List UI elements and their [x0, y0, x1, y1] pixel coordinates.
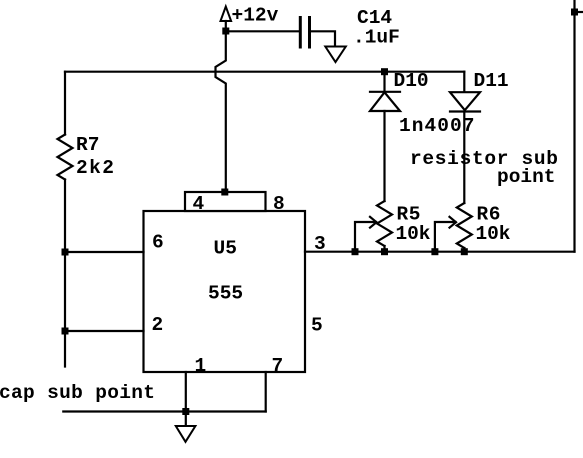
wire +12v node to C14: [226, 30, 299, 32]
wire pin 7 down: [265, 372, 267, 412]
potentiometer R5: [355, 201, 392, 252]
wire horizontal top rail: [65, 71, 464, 73]
wire vertical from +12v node down to IC (with jog over horizontal wire): [216, 31, 226, 192]
wire pin 6: [65, 251, 144, 253]
wire right vertical rail: [573, 0, 575, 252]
junction dot pin2/left rail: [62, 328, 69, 335]
svg-text:+12v: +12v: [232, 5, 279, 27]
svg-text:R7: R7: [76, 134, 99, 156]
wire ground stub: [185, 412, 187, 427]
svg-text:6: 6: [152, 232, 164, 254]
ground (C14): [325, 47, 346, 63]
wire C14 right plate to ground: [311, 31, 335, 46]
svg-text:8: 8: [273, 193, 285, 215]
power +12v symbol: [221, 7, 232, 32]
junction dot D10 top: [381, 68, 388, 75]
ground (pin1): [176, 426, 196, 442]
svg-text:D11: D11: [474, 70, 509, 92]
svg-text:1: 1: [195, 355, 207, 377]
svg-text:4: 4: [193, 193, 205, 215]
svg-text:2: 2: [152, 314, 164, 336]
wire left vertical lower (cap sub stub): [64, 180, 66, 367]
wire left vertical (R7 branch) upper: [64, 72, 66, 135]
svg-text:5: 5: [311, 315, 323, 337]
junction dot right rail: [571, 9, 578, 16]
svg-text:10k: 10k: [476, 223, 511, 245]
capacitor C14: [300, 18, 309, 48]
junction dot at +12v node: [222, 28, 229, 35]
diode D11: [450, 72, 480, 203]
junction dot R5 wiper: [352, 248, 359, 255]
resistor R7: [58, 135, 73, 180]
svg-text:U5: U5: [214, 238, 237, 260]
svg-text:cap sub point: cap sub point: [0, 382, 155, 404]
wire pin 3 output rail: [305, 251, 575, 253]
svg-text:2k2: 2k2: [76, 157, 114, 179]
junction dot R6 bottom: [461, 248, 468, 255]
wire bottom rail: [63, 410, 265, 412]
svg-text:.1uF: .1uF: [353, 27, 400, 49]
diode D10: [370, 72, 400, 201]
wire pin 1 down: [185, 372, 187, 412]
wire right rail exit: [575, 11, 583, 13]
svg-text:point: point: [497, 166, 556, 188]
op IC U5 555 main box: [144, 211, 306, 372]
junction dot ground node: [182, 408, 189, 415]
svg-text:10k: 10k: [396, 223, 431, 245]
svg-text:555: 555: [208, 283, 243, 305]
IC notch box pins 4 8: [185, 192, 266, 211]
potentiometer R6: [435, 203, 472, 252]
svg-text:1n4007: 1n4007: [399, 115, 475, 137]
svg-text:D10: D10: [394, 70, 429, 92]
svg-text:7: 7: [272, 355, 284, 377]
junction dot R6 wiper: [431, 248, 438, 255]
junction dot pin6/left rail: [62, 249, 69, 256]
junction dot pin4/8 top: [221, 189, 228, 196]
wire pin 2: [65, 330, 144, 332]
junction dot R5 bottom: [381, 248, 388, 255]
